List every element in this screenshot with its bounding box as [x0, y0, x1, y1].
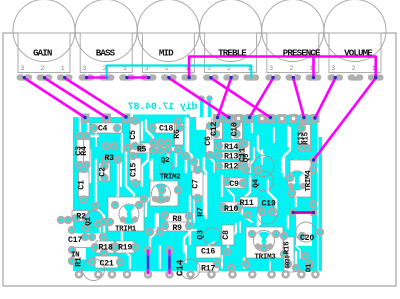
svg-text:Q3: Q3	[197, 230, 206, 240]
svg-text:C5: C5	[129, 130, 138, 140]
svg-text:R18: R18	[98, 244, 112, 253]
svg-text:3: 3	[269, 65, 273, 73]
svg-text:R6: R6	[173, 129, 182, 139]
svg-text:Q2: Q2	[161, 157, 170, 165]
svg-text:C6: C6	[204, 136, 213, 146]
svg-text:3: 3	[20, 65, 24, 73]
svg-text:C8: C8	[222, 230, 231, 240]
svg-text:R17: R17	[201, 265, 215, 274]
svg-text:2: 2	[40, 65, 44, 73]
svg-text:C21: C21	[99, 260, 113, 269]
svg-text:C17: C17	[68, 236, 82, 245]
svg-text:C7: C7	[192, 179, 201, 189]
svg-text:C4: C4	[98, 125, 108, 134]
svg-text:3: 3	[331, 65, 335, 73]
svg-text:1: 1	[61, 65, 65, 73]
svg-text:R12: R12	[224, 163, 238, 172]
svg-text:TRIM4: TRIM4	[305, 170, 313, 192]
svg-text:R13: R13	[224, 153, 238, 162]
svg-text:R10: R10	[224, 205, 238, 214]
svg-text:R1: R1	[75, 257, 84, 267]
svg-text:C15: C15	[130, 163, 139, 177]
svg-text:C16: C16	[201, 248, 215, 257]
svg-text:Q1: Q1	[85, 217, 93, 226]
svg-text:diy 17.04.87: diy 17.04.87	[128, 101, 198, 113]
svg-text:MID: MID	[159, 48, 174, 59]
svg-text:R8: R8	[172, 215, 182, 224]
svg-text:R19: R19	[118, 244, 132, 253]
svg-text:3: 3	[82, 65, 86, 73]
svg-text:C12: C12	[210, 122, 219, 136]
svg-text:R14: R14	[224, 143, 238, 152]
svg-text:R15: R15	[302, 131, 310, 144]
svg-text:C14: C14	[175, 259, 186, 276]
svg-text:C20: C20	[300, 234, 314, 243]
svg-text:R4: R4	[80, 146, 89, 156]
svg-text:C19: C19	[261, 200, 275, 209]
svg-text:GAIN: GAIN	[33, 48, 52, 59]
svg-text:R3: R3	[104, 154, 114, 163]
svg-text:C1: C1	[78, 180, 87, 190]
svg-text:C10: C10	[231, 122, 240, 136]
svg-text:R9: R9	[172, 224, 182, 233]
svg-text:C18: C18	[159, 125, 173, 134]
svg-text:TRIM3: TRIM3	[254, 254, 276, 262]
svg-text:R16: R16	[284, 241, 292, 254]
svg-text:Q4: Q4	[253, 179, 261, 188]
svg-text:R11: R11	[239, 199, 253, 208]
svg-text:BASS: BASS	[96, 48, 116, 59]
svg-text:C9: C9	[229, 180, 239, 189]
svg-text:2: 2	[351, 65, 355, 73]
svg-text:R7: R7	[197, 207, 206, 217]
svg-text:D1: D1	[306, 263, 314, 272]
svg-text:G030: G030	[285, 255, 292, 269]
svg-text:C2: C2	[99, 167, 108, 177]
svg-text:Q5: Q5	[243, 153, 251, 162]
svg-text:TRIM1: TRIM1	[115, 226, 137, 234]
svg-text:R5: R5	[137, 146, 147, 155]
svg-text:2: 2	[289, 65, 293, 73]
svg-text:TRIM2: TRIM2	[159, 174, 181, 182]
